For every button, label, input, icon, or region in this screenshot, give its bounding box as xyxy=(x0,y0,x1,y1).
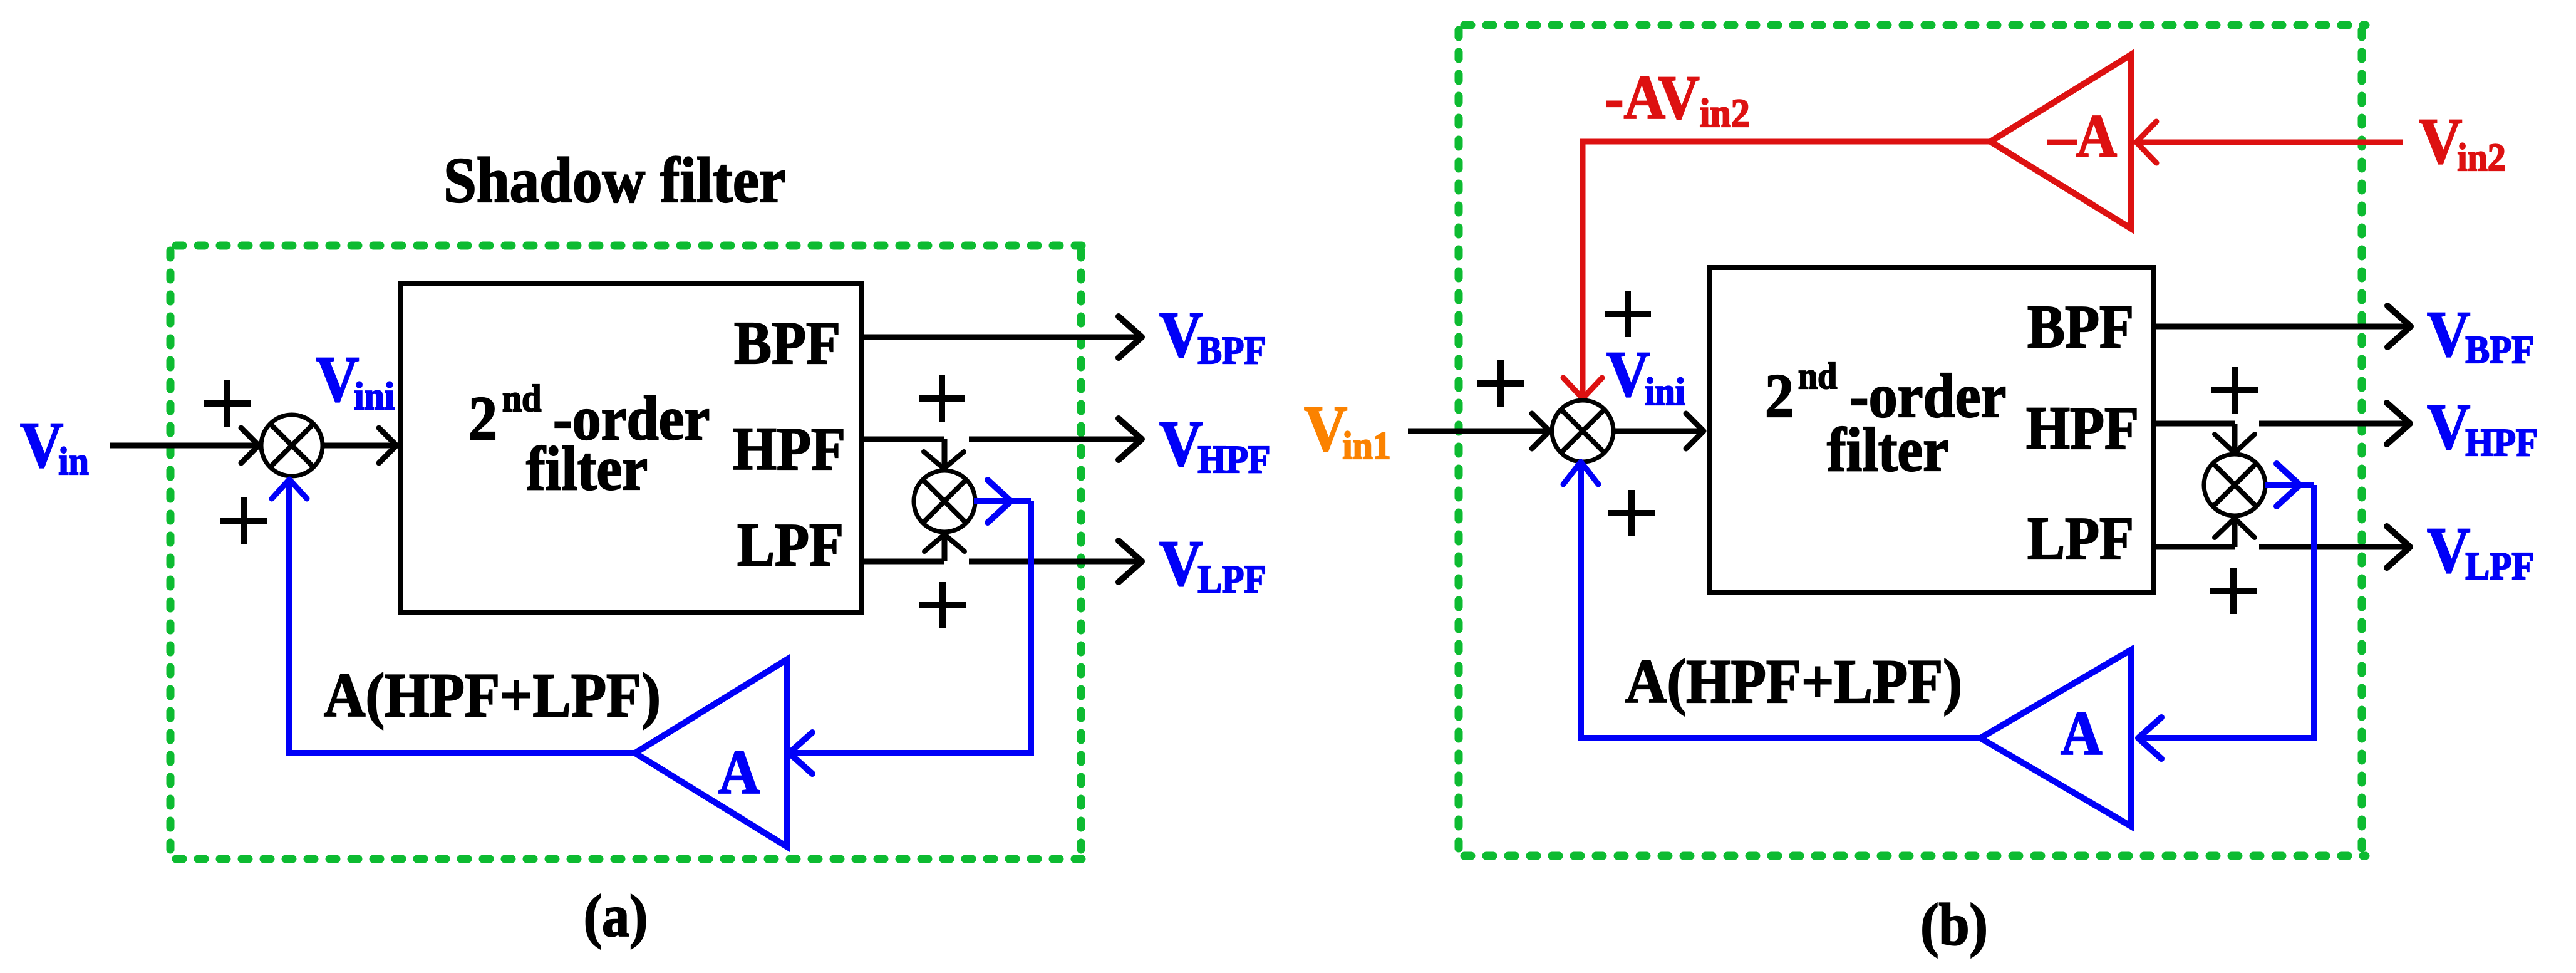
svg-text:Shadow filter: Shadow filter xyxy=(443,145,785,216)
svg-text:2: 2 xyxy=(468,384,497,453)
svg-text:LPF: LPF xyxy=(737,512,844,579)
svg-text:HPF: HPF xyxy=(733,416,846,483)
svg-text:filter: filter xyxy=(1827,415,1948,484)
svg-text:A(HPF+LPF): A(HPF+LPF) xyxy=(324,661,661,730)
svg-text:BPF: BPF xyxy=(2027,294,2134,361)
svg-text:BPF: BPF xyxy=(734,310,841,377)
svg-text:A(HPF+LPF): A(HPF+LPF) xyxy=(1625,647,1962,716)
svg-text:A: A xyxy=(718,738,760,807)
svg-text:(a): (a) xyxy=(584,883,648,949)
svg-text:nd: nd xyxy=(1798,355,1837,397)
svg-text:HPF: HPF xyxy=(2026,395,2139,462)
svg-text:(b): (b) xyxy=(1920,892,1988,958)
svg-text:A: A xyxy=(2061,699,2102,768)
svg-text:2: 2 xyxy=(1765,362,1794,430)
svg-text:–A: –A xyxy=(2047,103,2117,170)
svg-text:filter: filter xyxy=(526,434,648,503)
svg-text:nd: nd xyxy=(502,377,541,419)
svg-text:LPF: LPF xyxy=(2027,506,2134,573)
